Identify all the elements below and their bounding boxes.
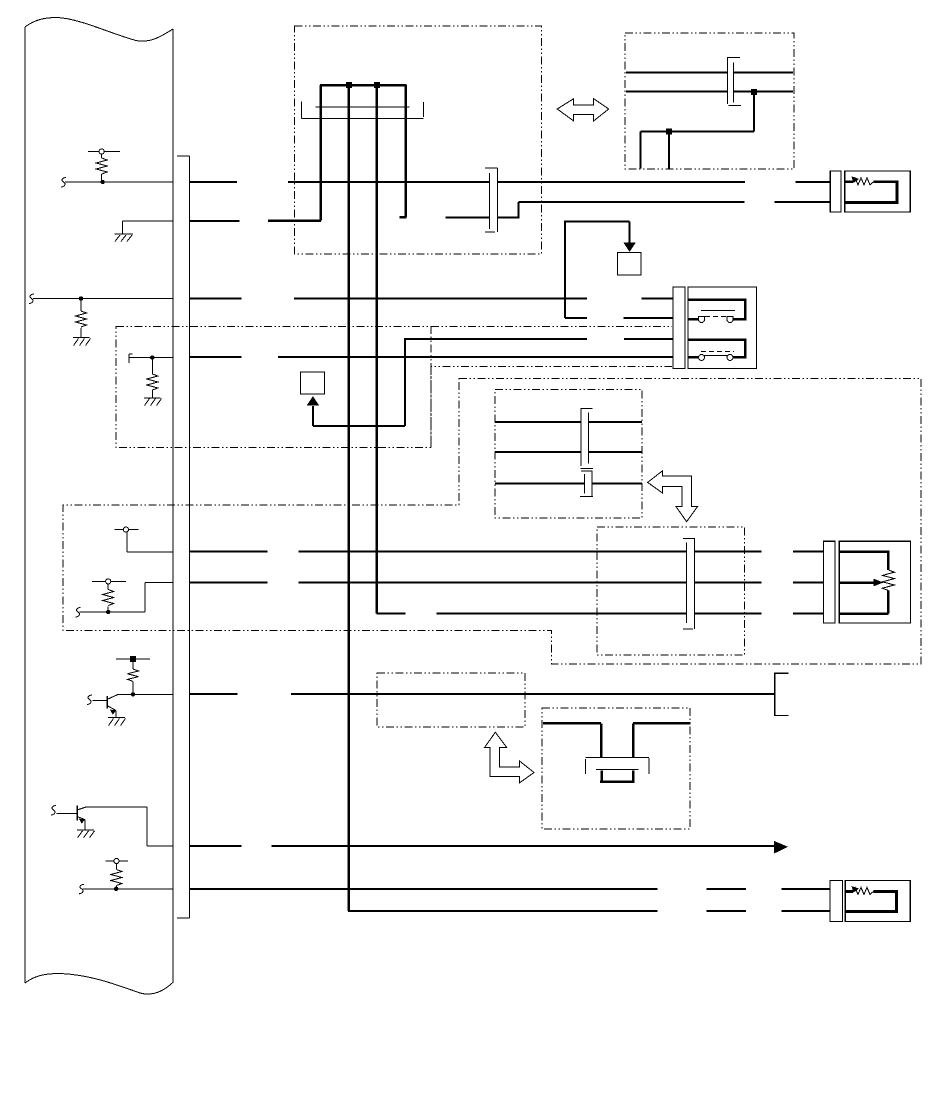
wire H5 row1 — [495, 421, 642, 423]
connector strip J1 (ECU edge connector) — [177, 156, 190, 918]
wire bottom row 2 y=911 — [348, 910, 830, 912]
dashed line (box A top edge to relay) — [431, 367, 672, 448]
hook (wire A source mark) — [61, 178, 66, 188]
O2S body box — [845, 880, 910, 921]
resistor R3 (inside dashed box, to ground) — [129, 354, 173, 406]
wire (row A inside ECU) — [65, 181, 173, 183]
dashed box H6 (middle connector) — [597, 527, 745, 655]
connector lines under coil T1 — [302, 102, 424, 119]
node dot on wire A — [100, 180, 104, 184]
resistor R2 (to ground, row C) — [29, 294, 173, 346]
HO2S heater squiggle — [853, 178, 874, 185]
dashed box H3 (left inner) — [116, 327, 431, 448]
wire bottom row 1 y=889 — [190, 888, 830, 890]
wire H8 left — [543, 723, 601, 757]
relay connector bar — [673, 287, 685, 369]
arrow box M2 (up arrow into box) — [301, 372, 325, 406]
dashed box H5 (3-line connector detail) — [495, 390, 642, 519]
resistor R1 (pull-up, top of ECU) — [88, 149, 120, 182]
wire row D y=357 — [190, 356, 673, 358]
ground G1 — [115, 221, 174, 242]
wire H5 row2 — [495, 451, 642, 453]
HO2S connector bar — [830, 171, 841, 212]
wire row C y=298.7 — [190, 298, 673, 300]
relay cell 2 (lower contacts) — [688, 340, 745, 358]
wire vertical V3 (elbow to row B) — [268, 85, 321, 221]
dashed harness box H2 — [625, 33, 794, 169]
bent arrow (up/right callout) — [485, 732, 534, 783]
dashed box H7 (empty callout) — [377, 673, 525, 727]
wire sensor row 3 y=613.5 — [377, 613, 824, 615]
resistor R6 (bottom, to row) — [79, 858, 173, 893]
connector C1 on row A — [485, 168, 498, 232]
wire vertical V2 (to row y=613) — [375, 85, 378, 614]
relay cell 1 (upper contacts) — [688, 300, 745, 320]
wire vertical V1 (long, to bottom row) — [348, 85, 351, 911]
wire row A y=182 — [190, 181, 830, 183]
connector plug lines — [585, 756, 648, 758]
stub with circle (box2 upper input) — [115, 527, 174, 552]
double arrow (compare mark) — [557, 99, 609, 121]
dashed harness box H1 — [295, 26, 542, 254]
wire relay feed y=339 with branch to arrow box — [313, 338, 673, 426]
O2S squiggle — [853, 887, 874, 894]
resistor R4 (box2 lower, with step-up wire) — [76, 579, 174, 617]
arrow box M1 (down arrow into box) — [618, 243, 642, 276]
wire (box H2 upper) — [626, 72, 793, 74]
bracket (wire end mark, row E) — [775, 673, 789, 715]
wire relay coil feed y=318 — [564, 220, 673, 318]
wire branch down inside H2 — [641, 92, 754, 169]
wire sensor row 1 y=551.5 — [190, 551, 823, 553]
wire row E y=694 — [190, 693, 775, 695]
connector C3 (upper, spans rows 1-2) — [581, 409, 593, 469]
junction square dot (H2 wire) — [751, 89, 757, 95]
dashed box H8 (sensor detail) — [542, 708, 690, 829]
TPS body box — [839, 541, 910, 623]
wire row arrow y=846 — [190, 845, 774, 847]
O2S loop — [845, 891, 896, 911]
junction square dots on coil bar — [346, 82, 352, 88]
bent arrow (left/down callout) — [648, 471, 698, 522]
HO2S heater loop — [845, 182, 897, 203]
HO2S body box — [845, 171, 910, 212]
wire H5 row3 — [495, 483, 642, 485]
wire step row y=217.5 — [445, 202, 830, 219]
connector C4 (lower, spans row 3) — [580, 471, 593, 497]
TPS wiper arrow — [839, 581, 873, 584]
connector C5 (middle rows) — [683, 538, 695, 629]
TPS resistor track and pins — [839, 552, 888, 571]
long arrow (row to right) — [774, 841, 788, 854]
coil pack T1 top bar — [320, 84, 406, 87]
dashed line (H3 top extension to relay) — [431, 326, 672, 328]
junction square dot (H2 branch) — [666, 129, 672, 135]
connector C2 inside H2 — [727, 58, 741, 106]
wire H8 right — [633, 723, 690, 757]
wire (box H2 lower) — [626, 91, 793, 93]
wire vertical V4 (with foot) — [400, 85, 407, 217]
wire row B y=221 — [190, 220, 321, 222]
dashed polygon H4 (big harness region) — [63, 379, 921, 665]
transistor Q2 (lower, collector to row) — [51, 805, 173, 845]
wire sensor row 2 y=582.5 — [190, 582, 823, 584]
O2S connector bar — [830, 880, 842, 921]
ECU block U1 (left, wavy top and bottom) — [25, 18, 173, 995]
TPS connector bar — [823, 541, 835, 623]
relay body box — [688, 287, 757, 369]
transistor Q1 with collector resistor R5 — [87, 656, 173, 725]
socket cup — [600, 770, 635, 782]
